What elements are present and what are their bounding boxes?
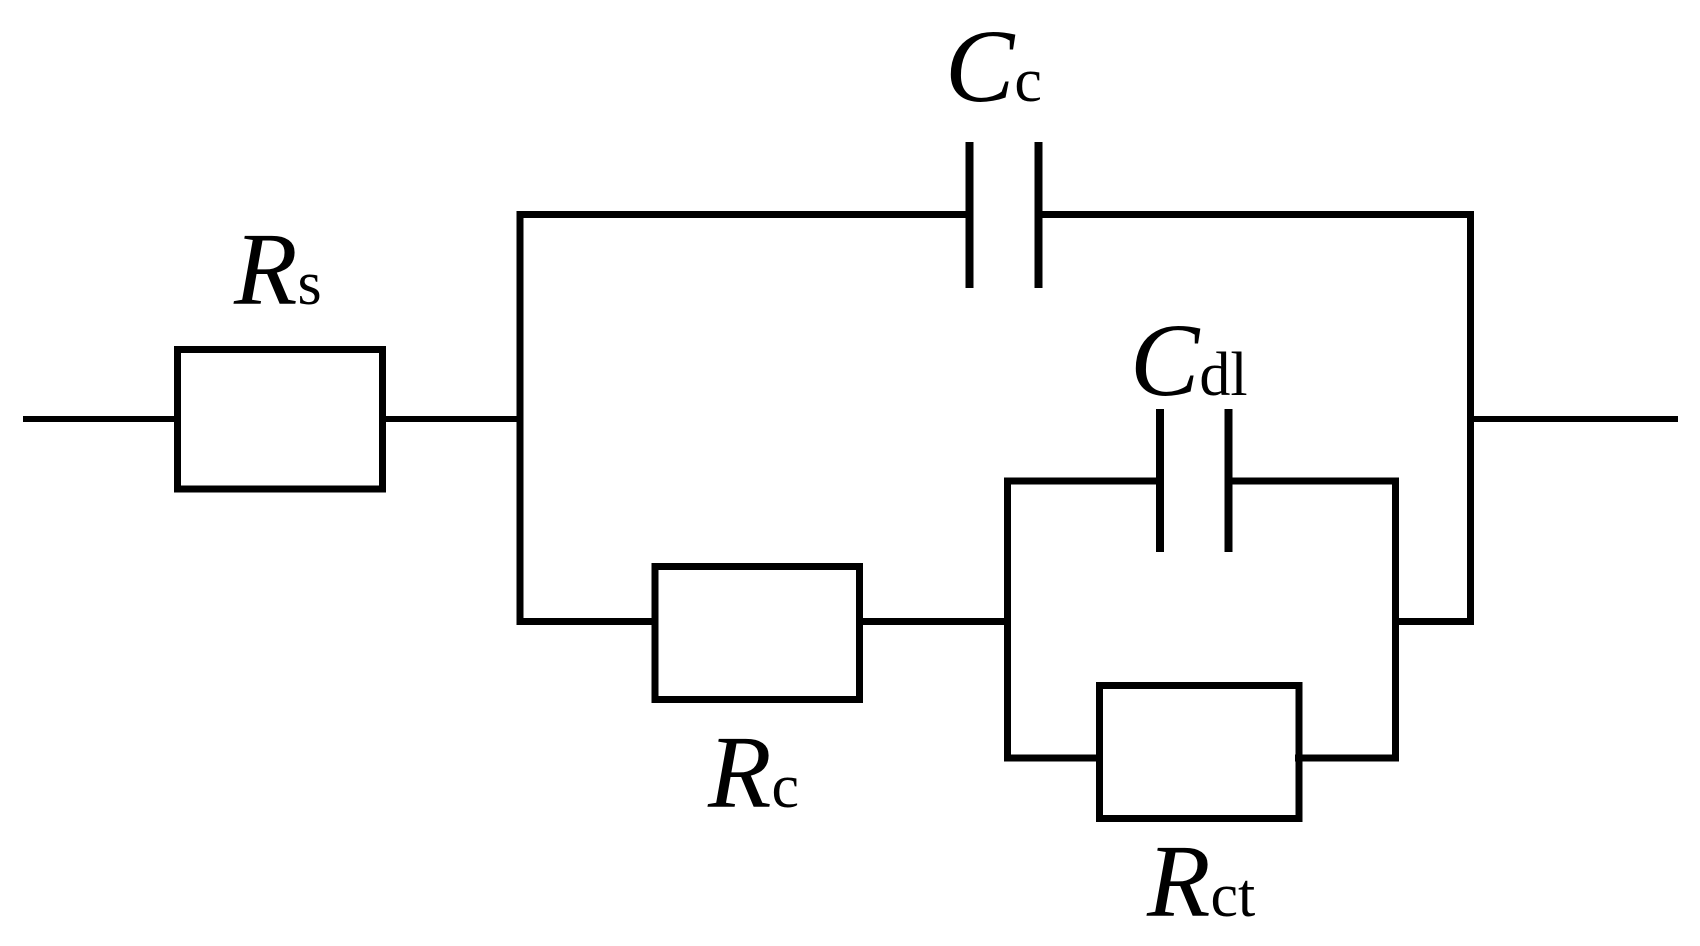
wire top rail left segment — [517, 211, 970, 218]
wire right vertical of inner loop — [1392, 478, 1399, 762]
wire output right — [1471, 416, 1679, 422]
wire inner loop to right vertical — [1392, 618, 1474, 625]
wire right vertical of outer loop — [1467, 211, 1474, 625]
svg-text:Rc: Rc — [707, 715, 799, 830]
wire input left — [23, 416, 178, 422]
wire bottom rail: node A to Rc — [517, 618, 659, 625]
wire Rs to node A — [382, 416, 520, 422]
resistor R_ct box — [1100, 686, 1300, 819]
wire inner bottom rail right segment — [1295, 755, 1399, 762]
wire left vertical of inner loop — [1004, 478, 1011, 762]
capacitor C_dl right plate — [1225, 409, 1233, 552]
wire left vertical of outer loop — [517, 211, 524, 625]
svg-text:Cdl: Cdl — [1130, 303, 1248, 418]
svg-text:Rct: Rct — [1146, 824, 1255, 939]
svg-text:Cc: Cc — [945, 9, 1042, 124]
wire inner bottom rail left segment — [1004, 755, 1103, 762]
wire inner top rail left segment — [1004, 478, 1160, 485]
capacitor C_dl left plate — [1156, 409, 1164, 552]
resistor R_s box — [178, 350, 383, 490]
wire Rc to inner loop — [856, 618, 1011, 625]
capacitor C_c left plate — [966, 142, 974, 288]
svg-text:Rs: Rs — [233, 212, 322, 327]
wire inner top rail right segment — [1229, 478, 1400, 485]
capacitor C_c right plate — [1035, 142, 1043, 288]
wire top rail right segment — [1039, 211, 1475, 218]
resistor R_c box — [655, 567, 860, 700]
